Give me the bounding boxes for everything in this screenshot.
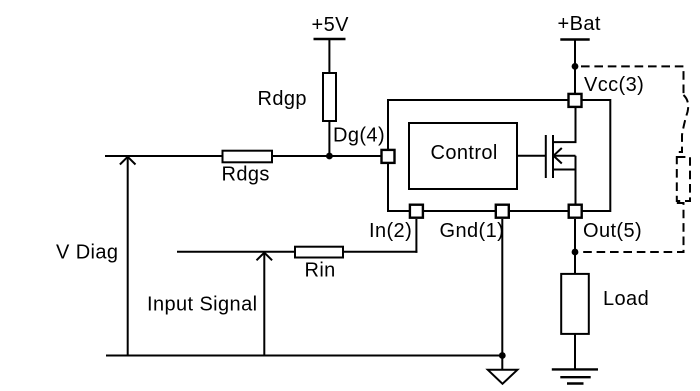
svg-text:+5V: +5V bbox=[312, 14, 350, 36]
wire Rin to In stub bbox=[343, 251, 417, 253]
svg-text:Rdgp: Rdgp bbox=[258, 88, 307, 110]
Input Signal arrow line bbox=[263, 252, 265, 355]
wire input signal left segment bbox=[177, 251, 296, 253]
svg-text:Out(5): Out(5) bbox=[583, 220, 642, 242]
wire Rdgp to node Dg bbox=[328, 121, 330, 157]
wire Out pin to Load bbox=[574, 219, 576, 274]
wire +5V to Rdgp bbox=[328, 40, 330, 74]
junction dot bottom rail to ground bbox=[499, 352, 506, 359]
svg-text:Load: Load bbox=[603, 288, 649, 310]
wire gate from Control to MOSFET bbox=[517, 155, 546, 157]
junction dot Out node bbox=[572, 249, 579, 256]
Control block bbox=[409, 123, 517, 189]
V Diag measurement arrow line bbox=[127, 157, 129, 356]
junction dot node Dg bbox=[326, 153, 333, 160]
svg-text:Gnd(1): Gnd(1) bbox=[440, 220, 505, 242]
wire Rdgs to pin Dg(4) bbox=[272, 155, 381, 157]
pin square In(2) bbox=[410, 205, 423, 218]
Input Signal arrowhead bbox=[257, 253, 273, 261]
pin square Out(5) bbox=[569, 205, 582, 218]
svg-text:Control: Control bbox=[431, 142, 498, 164]
dashed curve segment bbox=[678, 95, 689, 152]
signal ground triangle bbox=[488, 370, 518, 384]
transistor M1 drain lead bbox=[553, 108, 576, 142]
transistor M1 body arrowhead bbox=[554, 148, 562, 164]
wire +Bat to Vcc pin bbox=[574, 41, 576, 95]
svg-text:V Diag: V Diag bbox=[56, 242, 118, 264]
svg-text:Vcc(3): Vcc(3) bbox=[584, 74, 644, 96]
IC outline U1 bbox=[388, 100, 610, 211]
wire bottom common rail bbox=[106, 355, 502, 357]
svg-text:+Bat: +Bat bbox=[558, 13, 601, 35]
transistor M1 channel bar bbox=[552, 135, 554, 178]
wire stub up to pin In(2) bbox=[415, 219, 417, 253]
V Diag arrowhead bbox=[120, 157, 136, 165]
transistor M1 gate bar bbox=[545, 135, 547, 178]
pin square Gnd(1) bbox=[496, 205, 509, 218]
transistor M1 body lead bbox=[553, 155, 576, 157]
earth ground symbol bbox=[552, 369, 598, 383]
power rail +Bat bar bbox=[560, 38, 589, 41]
svg-text:Rin: Rin bbox=[305, 260, 336, 282]
svg-text:In(2): In(2) bbox=[369, 220, 412, 242]
wire Load to earth bbox=[574, 334, 576, 369]
resistor Rdgs bbox=[223, 151, 273, 163]
resistor Load bbox=[561, 274, 589, 334]
power rail +5V bar bbox=[314, 38, 346, 41]
wire Gnd pin down to rail bbox=[501, 219, 503, 369]
resistor Rin bbox=[295, 247, 343, 258]
dashed external load path bottom bbox=[581, 203, 684, 252]
dashed external load path top bbox=[581, 66, 684, 95]
resistor Rdgp bbox=[323, 73, 336, 121]
dashed external resistor bbox=[677, 157, 690, 201]
pin square Dg(4) bbox=[382, 150, 395, 163]
svg-text:Rdgs: Rdgs bbox=[222, 164, 270, 186]
junction dot Bat node bbox=[572, 63, 579, 70]
transistor M1 source lead bbox=[553, 156, 576, 204]
svg-text:Input Signal: Input Signal bbox=[147, 294, 257, 316]
pin square Vcc(3) bbox=[569, 94, 582, 107]
wire Vdiag net left segment bbox=[105, 155, 223, 157]
svg-text:Dg(4): Dg(4) bbox=[333, 125, 385, 147]
